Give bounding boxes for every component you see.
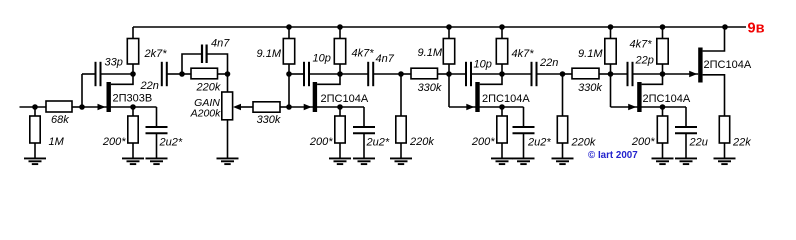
- svg-text:22u: 22u: [689, 137, 708, 149]
- svg-text:220k: 220k: [196, 82, 221, 94]
- svg-text:200*: 200*: [309, 136, 333, 148]
- svg-text:2П303В: 2П303В: [113, 93, 153, 105]
- svg-text:9в: 9в: [748, 20, 765, 36]
- svg-text:4n7: 4n7: [211, 38, 230, 50]
- svg-text:10p: 10p: [474, 59, 492, 71]
- svg-text:2ПС104А: 2ПС104А: [321, 93, 369, 105]
- svg-text:2k7*: 2k7*: [144, 48, 168, 60]
- svg-text:9.1M: 9.1M: [578, 48, 603, 60]
- svg-text:2u2*: 2u2*: [527, 136, 551, 148]
- svg-text:9.1M: 9.1M: [257, 48, 282, 60]
- svg-text:22n: 22n: [140, 80, 159, 92]
- svg-text:2ПС104А: 2ПС104А: [482, 93, 530, 105]
- svg-text:22k: 22k: [732, 137, 751, 149]
- svg-text:22n: 22n: [539, 57, 558, 69]
- svg-text:4k7*: 4k7*: [352, 48, 375, 60]
- svg-text:4k7*: 4k7*: [512, 48, 535, 60]
- svg-text:200*: 200*: [631, 136, 655, 148]
- svg-text:4n7: 4n7: [376, 53, 395, 65]
- svg-text:200*: 200*: [471, 136, 495, 148]
- svg-text:220k: 220k: [571, 137, 596, 149]
- svg-text:220k: 220k: [409, 136, 434, 148]
- svg-text:2u2*: 2u2*: [366, 136, 390, 148]
- svg-text:10p: 10p: [313, 53, 331, 65]
- svg-text:© Iart 2007: © Iart 2007: [588, 150, 638, 161]
- svg-text:33p: 33p: [105, 56, 123, 68]
- svg-text:330k: 330k: [257, 114, 281, 126]
- svg-text:1M: 1M: [49, 136, 65, 148]
- svg-text:A200k: A200k: [190, 108, 222, 120]
- svg-text:2ПС104А: 2ПС104А: [704, 59, 752, 71]
- svg-text:68k: 68k: [51, 114, 69, 126]
- svg-text:4k7*: 4k7*: [630, 39, 653, 51]
- svg-text:22p: 22p: [635, 55, 654, 67]
- svg-text:2ПС104А: 2ПС104А: [643, 93, 691, 105]
- svg-text:200*: 200*: [102, 136, 126, 148]
- svg-text:9.1M: 9.1M: [418, 47, 443, 59]
- svg-text:2u2*: 2u2*: [159, 136, 183, 148]
- svg-text:330k: 330k: [418, 82, 442, 94]
- svg-text:330k: 330k: [578, 82, 602, 94]
